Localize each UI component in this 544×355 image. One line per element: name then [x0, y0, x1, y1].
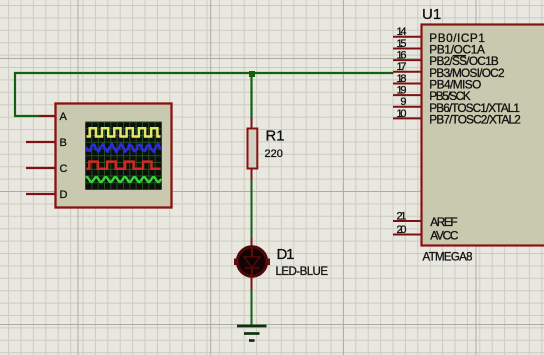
wire into scope pin A — [14, 115, 40, 117]
oscilloscope screen — [86, 122, 162, 190]
chip U1 body ATMEGA8 — [422, 25, 544, 246]
led D1 cathode lead inside — [251, 268, 253, 277]
svg-text:D: D — [60, 189, 68, 201]
led D1 side tabs — [234, 259, 238, 266]
led D1 pin bottom — [251, 276, 253, 290]
chip U1 pin 18 PB4/MISO — [393, 83, 422, 85]
svg-text:17: 17 — [397, 61, 407, 73]
svg-text:B: B — [60, 137, 67, 149]
resistor R1 body — [248, 129, 258, 169]
svg-text:19: 19 — [397, 85, 407, 97]
waveform channel A yellow square — [87, 128, 161, 136]
svg-text:21: 21 — [397, 210, 407, 222]
wire D1 to ground — [251, 289, 253, 326]
led D1 cathode bar — [245, 267, 260, 269]
oscilloscope body — [56, 104, 172, 208]
led D1 anode lead inside — [251, 247, 253, 257]
chip U1 pin 15 PB1/OC1A — [393, 48, 422, 50]
svg-text:15: 15 — [397, 38, 407, 50]
svg-text:220: 220 — [265, 148, 283, 160]
waveform channel D green sine — [87, 177, 161, 182]
svg-text:18: 18 — [397, 73, 407, 85]
wire junction down to R1 — [250, 73, 252, 120]
svg-text:9: 9 — [400, 96, 406, 108]
oscilloscope channel labels — [60, 111, 68, 201]
resistor R1 pin top — [251, 118, 253, 129]
svg-text:A: A — [60, 111, 68, 123]
chip U1 pin 16 PB2/SS/OC1B — [393, 59, 422, 61]
led D1 body circle — [237, 247, 266, 276]
svg-text:U1: U1 — [422, 6, 441, 23]
chip U1 pin 17 PB3/MOSI/OC2 — [393, 71, 422, 73]
chip U1 pin 21 AREF — [393, 220, 422, 222]
node junction at R1 branch — [249, 71, 255, 77]
svg-text:10: 10 — [397, 108, 407, 120]
svg-text:ATMEGA8: ATMEGA8 — [423, 252, 473, 264]
chip U1 SS overline — [453, 55, 466, 57]
chip U1 pin 19 PB5/SCK — [393, 94, 422, 96]
resistor R1 pin bottom — [251, 168, 253, 179]
ground — [237, 326, 267, 341]
svg-text:LED-BLUE: LED-BLUE — [276, 266, 329, 278]
oscilloscope screen grid — [86, 122, 162, 190]
chip U1 pin 9 PB6/TOSC1/XTAL1 — [393, 106, 422, 108]
svg-text:R1: R1 — [266, 129, 285, 145]
led D1 pin top — [251, 238, 253, 248]
chip U1 pin 14 PB0/ICP1 — [393, 36, 422, 38]
svg-text:PB7/TOSC2/XTAL2: PB7/TOSC2/XTAL2 — [429, 112, 521, 126]
wire left vertical to scope — [14, 72, 16, 116]
oscilloscope pins A B C D — [26, 116, 56, 194]
svg-text:14: 14 — [397, 26, 407, 38]
chip U1 pin 10 PB7/TOSC2/XTAL2 — [393, 117, 422, 119]
svg-text:AVCC: AVCC — [430, 229, 459, 243]
waveform channel C red square — [87, 162, 161, 169]
svg-text:D1: D1 — [277, 246, 295, 263]
svg-text:16: 16 — [397, 50, 407, 62]
svg-text:C: C — [60, 163, 68, 175]
chip U1 pin 20 AVCC — [393, 234, 422, 236]
svg-text:AREF: AREF — [430, 215, 457, 229]
svg-text:20: 20 — [397, 224, 407, 236]
waveform channel B blue — [87, 144, 161, 152]
led D1 triangle — [244, 257, 260, 268]
wire R1 to D1 — [251, 178, 253, 240]
wire net PB3 horizontal — [14, 72, 394, 74]
